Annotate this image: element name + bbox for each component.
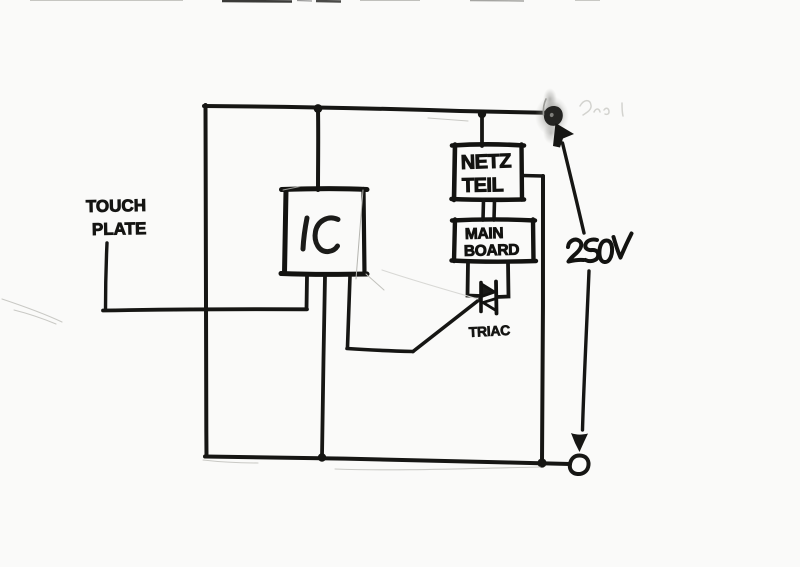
wire NETZTEIL right stub [522, 174, 543, 178]
svg-text:BOARD: BOARD [464, 242, 520, 260]
wire touch plate vertical [106, 243, 108, 310]
svg-text:NETZ: NETZ [460, 150, 511, 174]
wire touch horizontal [103, 309, 307, 310]
svg-text:TEIL: TEIL [462, 174, 504, 197]
wire IC pin3 gate run [347, 276, 480, 352]
terminal top (phase) blob [535, 88, 569, 144]
scan edge marks top [30, 1, 600, 2]
label IC [303, 218, 338, 252]
svg-text:TOUCH: TOUCH [86, 196, 146, 216]
wire triac bracket left [468, 262, 482, 296]
wire left [205, 105, 206, 456]
MAINBOARD block [452, 219, 537, 261]
faint pencil marks [2, 118, 540, 470]
label MAIN BOARD [464, 225, 520, 260]
wire IC top pin [316, 109, 320, 190]
wires NETZTEIL to MAINBOARD links [483, 200, 495, 220]
wire top (phase rail) [204, 106, 545, 113]
wire IC pin1 to touch line [305, 276, 309, 309]
junction node A (top, IC feed) [314, 104, 323, 113]
label NETZ TEIL [460, 150, 511, 197]
svg-text:TRIAC: TRIAC [468, 322, 510, 340]
arrow down head [571, 433, 588, 452]
junction node B (top, NETZTEIL feed) [478, 110, 486, 118]
NETZTEIL block [452, 144, 525, 200]
arrow up (to phase terminal) shaft [563, 143, 585, 233]
wire right vertical (to bottom rail) [542, 176, 543, 462]
label 250 V [568, 234, 632, 263]
wire IC pin2 to bottom rail [322, 276, 325, 457]
label TOUCH PLATE [86, 196, 147, 239]
svg-text:MAIN: MAIN [465, 225, 504, 243]
wire bottom [205, 457, 570, 465]
terminal bottom (ring) [570, 456, 589, 475]
junction node bottom pin2 [318, 453, 326, 461]
faint erased scribble [580, 101, 623, 116]
IC block U1 [281, 187, 384, 291]
wire NETZTEIL top pin [480, 114, 484, 146]
junction node bottom right [537, 458, 546, 467]
svg-text:PLATE: PLATE [92, 219, 147, 239]
wire triac bracket right [497, 262, 509, 297]
arrow down (to neutral terminal) shaft [583, 271, 590, 430]
arrow up head [553, 123, 574, 148]
triac Q1 symbol [481, 282, 497, 314]
label TRIAC [468, 322, 510, 340]
